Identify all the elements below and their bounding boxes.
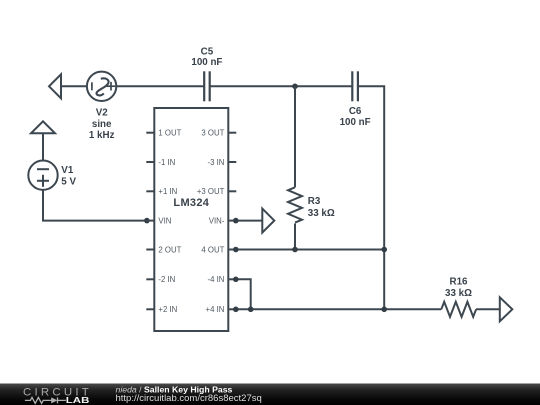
svg-text:33 kΩ: 33 kΩ <box>308 208 335 219</box>
wire C6 right and down to output net <box>358 86 384 309</box>
junction node +4 IN pin <box>233 307 239 313</box>
svg-text:-3 IN: -3 IN <box>207 158 224 167</box>
junction node R3 top <box>292 84 298 90</box>
svg-text:-4 IN: -4 IN <box>207 275 224 284</box>
junction node VIN- pin <box>233 218 239 224</box>
wire -4 IN to +4 IN net <box>236 279 250 309</box>
svg-text:R16: R16 <box>450 276 469 287</box>
node flag left (input) <box>49 74 61 98</box>
svg-text:VIN-: VIN- <box>209 216 225 225</box>
junction node -4 IN drop <box>248 307 254 313</box>
node flag right (output) <box>500 297 513 321</box>
wire R16 to output flag <box>476 308 500 310</box>
pin -2 IN <box>146 278 154 280</box>
svg-text:R3: R3 <box>308 196 321 207</box>
wire C5 to C6 <box>210 85 353 87</box>
svg-text:100 nF: 100 nF <box>340 117 371 128</box>
wire V1 to VIN <box>43 190 147 221</box>
svg-text:33 kΩ: 33 kΩ <box>445 288 472 299</box>
pin VIN- <box>228 220 236 222</box>
svg-text:+2 IN: +2 IN <box>158 305 177 314</box>
svg-text:V2: V2 <box>96 108 109 119</box>
svg-text:100 nF: 100 nF <box>191 57 222 68</box>
pin 4 OUT <box>228 249 236 251</box>
CircuitLab logo resistor-diode symbol <box>25 397 66 403</box>
wire +4 IN to R16 <box>236 308 441 310</box>
svg-text:C5: C5 <box>201 46 214 57</box>
junction node feedback tee <box>381 247 387 253</box>
svg-text:-1 IN: -1 IN <box>158 158 175 167</box>
svg-text:+1 IN: +1 IN <box>158 187 177 196</box>
svg-text:5 V: 5 V <box>61 177 76 188</box>
svg-text:4 OUT: 4 OUT <box>201 245 224 254</box>
svg-text:+4 IN: +4 IN <box>206 305 225 314</box>
pin 3 OUT <box>228 132 236 134</box>
svg-text:C6: C6 <box>349 106 362 117</box>
node flag up (V1 top) <box>31 121 55 133</box>
junction node VIN pin <box>144 218 150 224</box>
capacitor C6 <box>352 71 358 101</box>
voltage source V1 <box>28 161 57 190</box>
pin -4 IN <box>228 278 236 280</box>
junction node output tee <box>381 307 387 313</box>
pin +1 IN <box>146 190 154 192</box>
pin 2 OUT <box>146 249 154 251</box>
svg-text:2 OUT: 2 OUT <box>158 245 181 254</box>
svg-text:V1: V1 <box>61 165 74 176</box>
wire VIN- to flag <box>236 220 262 222</box>
wire flag to V2 <box>61 85 87 87</box>
svg-text:+3 OUT: +3 OUT <box>197 187 225 196</box>
svg-text:LM324: LM324 <box>173 197 209 209</box>
pin -3 IN <box>228 161 236 163</box>
svg-text:-2 IN: -2 IN <box>158 275 175 284</box>
svg-text:http://circuitlab.com/cr86s8ec: http://circuitlab.com/cr86s8ect27sq <box>116 393 262 404</box>
footer bar <box>0 384 540 405</box>
wire 4 OUT net <box>236 249 384 251</box>
svg-text:1 kHz: 1 kHz <box>89 130 115 141</box>
resistor R3 <box>288 86 302 249</box>
svg-text:LAB: LAB <box>66 395 90 405</box>
voltage source V2 (sine) <box>87 72 116 101</box>
svg-text:VIN: VIN <box>158 216 171 225</box>
pin +2 IN <box>146 308 154 310</box>
svg-text:sine: sine <box>92 119 112 130</box>
pin VIN <box>146 220 154 222</box>
pin +4 IN <box>228 308 236 310</box>
pin +3 OUT <box>228 190 236 192</box>
svg-text:3 OUT: 3 OUT <box>201 129 224 138</box>
junction node R3 bottom <box>292 247 298 253</box>
junction node -4 IN pin <box>233 277 239 283</box>
wire V2 to C5 <box>116 85 204 87</box>
pin -1 IN <box>146 161 154 163</box>
node flag right (VIN-) <box>262 209 274 233</box>
op-amp U1 LM324 body <box>154 108 228 331</box>
svg-text:1 OUT: 1 OUT <box>158 129 181 138</box>
CircuitLab logo diode triangle <box>51 397 57 403</box>
wire flag to V1 <box>42 133 44 160</box>
junction node 4 OUT pin <box>233 247 239 253</box>
resistor R16 <box>441 302 476 317</box>
pin 1 OUT <box>146 132 154 134</box>
capacitor C5 <box>204 71 210 101</box>
